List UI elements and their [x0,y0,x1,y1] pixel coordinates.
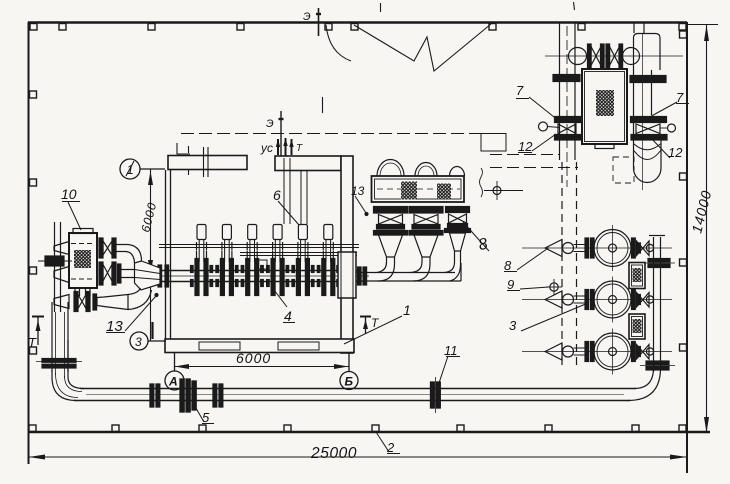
valve row1 right of vessel [99,238,103,258]
wire pipe stubs through top-left bar [204,147,209,177]
svg-text:Т: Т [371,316,380,330]
svg-text:5: 5 [202,410,210,425]
manifold crossing column block [338,252,356,298]
tank T1 with drop pipe and manifold valve cluster [191,225,213,296]
vessel top right [634,34,661,71]
svg-text:Э: Э [303,11,311,23]
elbow from stack3 [443,251,455,273]
svg-text:3: 3 [509,318,517,333]
tank T4 [267,225,289,296]
dome 3 [450,167,465,177]
svg-text:Т: Т [28,335,37,350]
manifold right flange pair [358,267,362,285]
dome 2 [415,163,437,177]
svg-text:6000: 6000 [138,201,159,234]
left stub flange [38,260,72,262]
tank T5 [292,225,314,296]
svg-text:7: 7 [516,83,524,98]
wire bottom wall [28,431,710,433]
wire room bottom wall band [165,339,354,353]
svg-text:Б: Б [345,375,354,389]
wire room top-left wall bar [168,156,247,170]
small box on pipe [257,260,267,269]
BOTTOM MAIN PIPE [74,377,636,413]
svg-text:4: 4 [284,308,292,324]
wire left riser [559,23,561,160]
wire manifold header pipe [159,270,361,272]
wire room right wall column [341,156,353,353]
valve train centerline [545,55,683,57]
svg-text:8: 8 [477,235,490,254]
wire right wall [686,22,688,473]
train ellipse right [623,48,640,65]
CYCLONE GROUP [356,160,471,282]
wire upper rail B [240,252,357,254]
svg-text:3: 3 [135,335,142,349]
tank row T1..T6 with drops and valve clusters [158,225,367,299]
ejector funnel row1 [54,242,69,255]
ejector funnel row3 [54,295,69,309]
hatch box 2 [629,314,645,339]
train valves [588,44,592,68]
node T marker left [32,317,44,346]
elbow from stack1 [374,257,387,273]
node axis circle B [340,372,358,390]
tank T3 [241,225,263,296]
unit body [582,69,627,144]
TOP-RIGHT UNIT 7 [480,23,684,200]
wall break symbol top [326,25,351,61]
train ellipse left [569,48,587,65]
cyclone collector box [372,176,465,202]
leader lines for callouts 10,6,13,4,1,11,5,2,8,9,3,7,12 [62,97,689,454]
wire 6000 dimension (A-B) [175,366,349,368]
wire cyclone discharge pipe [356,272,455,274]
svg-text:Т: Т [296,143,303,154]
wire dash-dot zone boundary [181,133,505,135]
RIGHT BLOWER GROUP [522,162,675,401]
row3 curve up to junction [128,288,141,295]
PUMP UNIT 10 [36,222,160,401]
svg-text:1: 1 [403,302,411,318]
pipe elbow into bottom main [52,370,76,401]
vessel 10 [69,233,97,288]
flange group 5c [213,384,217,407]
flange right upper [630,76,666,79]
vent cross marker [550,283,558,291]
flange on header below row1 [648,259,670,263]
wire left riser pipe [54,222,56,312]
tank T2 [216,225,238,296]
wire upper rail A [159,244,359,246]
header pipe right [653,237,655,372]
blower row 2 [522,277,672,323]
svg-text:9: 9 [507,277,514,292]
cyclone stack 2 [409,207,443,258]
pipe curves row1 to junction [116,245,142,266]
small rect left of dashes [481,134,506,152]
svg-text:8: 8 [504,258,512,273]
valve 7 left [555,117,581,123]
node axis circle 1 [120,159,140,179]
flange cross on down pipe [42,359,76,363]
svg-text:14000: 14000 [688,188,714,235]
wire header elbow to bottom pipe [628,368,661,401]
AXIS MARKERS [120,159,358,390]
svg-text:2: 2 [386,440,395,455]
node axis circle 3 [130,332,148,350]
ejector funnel row2 [54,267,69,283]
wire right riser [633,23,635,33]
dome 1 [377,160,404,177]
ROOM [165,156,354,354]
hatch box 1 [629,263,645,289]
blower row 1 (cone, circle body, valves) [522,225,672,271]
svg-text:А: А [168,375,178,389]
Y junction to manifold [135,261,161,290]
svg-text:25000: 25000 [310,445,357,462]
svg-text:12: 12 [518,139,533,154]
svg-text:11: 11 [444,343,458,358]
drain marker [484,190,523,192]
wire room top-right wall bar [275,156,341,171]
row3 valves [74,292,78,312]
wire bottom dimension line 25000 [29,456,688,458]
svg-text:ус: ус [260,141,273,155]
row2 pipe to junction [121,269,140,271]
wire top wall [28,21,687,23]
valve 7 right [631,117,667,123]
svg-text:1: 1 [127,162,134,177]
dashed risers continue [561,162,563,370]
wall column squares [29,24,687,432]
flange left upper [553,75,580,78]
flange pair on elbow [646,361,669,365]
cyclone stack 3 smaller [446,207,470,213]
blower row 3 [522,329,672,375]
node axis circle A [165,371,184,390]
dash outline near bell [613,157,634,183]
wire 6000 vertical axis line [150,169,152,341]
vessel bottom stubs [74,288,76,296]
flange group 5b main [180,379,184,412]
pump scroll bell [634,140,662,183]
svg-text:6: 6 [273,187,281,203]
row3 expanding cone [97,295,128,310]
svg-text:Э: Э [266,118,274,130]
svg-text:13: 13 [106,318,123,335]
MANIFOLD GROUP [148,245,369,282]
valve row2 [99,262,103,285]
node T marker right [360,317,371,335]
manifold left end flanges [158,265,162,287]
flange group 5a [150,384,154,407]
svg-text:7: 7 [676,90,684,105]
wire right dimension line 14000 [706,25,708,433]
cyclone stack 1 (flanges, valve, funnel) [374,207,408,258]
svg-text:13: 13 [351,184,365,198]
wire room left wall [165,170,167,339]
tank T6 [317,225,339,296]
svg-text:12: 12 [668,145,683,160]
wire bottom pipe [74,400,630,402]
svg-text:10: 10 [61,186,77,202]
valve 11 [431,382,435,408]
wire left wall [28,22,30,464]
elbow from stack2 [409,257,422,273]
